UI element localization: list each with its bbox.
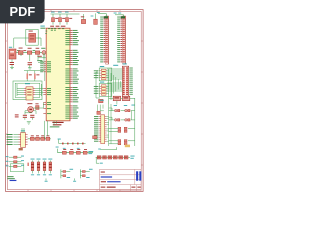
USB shield outline xyxy=(13,81,42,100)
polyfuse F3 xyxy=(122,96,129,100)
crystal Q1 xyxy=(28,107,34,113)
title block row2 link text xyxy=(101,176,112,177)
wire RN2 feed xyxy=(98,147,116,149)
pin names U1 top rows xyxy=(48,27,64,30)
wire crystal join xyxy=(25,111,36,114)
label +5V nets xyxy=(37,53,46,71)
capacitor C5 xyxy=(15,114,19,117)
label U1 designator xyxy=(50,26,65,27)
wire 5V drop xyxy=(38,53,44,60)
jumper SJ1 group xyxy=(6,156,24,168)
MCU U1 left pins xyxy=(43,62,46,114)
net labels column AD0-AD6 xyxy=(94,116,98,141)
wire MISO/SCK xyxy=(45,121,48,139)
label diode rows xyxy=(114,105,135,106)
ICSP pins xyxy=(13,135,27,145)
label chain nets xyxy=(17,49,35,52)
diode D5 pair xyxy=(109,109,120,112)
transistor cluster T3 xyxy=(109,127,127,132)
value ATMEGA label 3 xyxy=(50,125,60,128)
wire right bus xyxy=(109,98,135,146)
wire header JP5 top xyxy=(97,12,107,16)
PDF badge xyxy=(0,0,45,23)
polyfuse F2 xyxy=(113,96,120,100)
capacitor C10 above U1 xyxy=(51,12,58,25)
capacitor C15 bottom row xyxy=(37,159,41,176)
pin names U1 top rows 2 xyxy=(45,30,56,34)
ICSP net labels xyxy=(7,134,13,145)
capacitor C1 xyxy=(10,62,14,67)
net labels JP3 right xyxy=(129,68,132,95)
MCU U1 body xyxy=(46,28,70,121)
diode D8 pair xyxy=(121,119,135,122)
capacitor C6 xyxy=(23,115,27,120)
resistor R8 xyxy=(81,14,86,24)
label Q1 xyxy=(27,103,38,104)
ground GND3 xyxy=(27,122,31,124)
wire into ADC top xyxy=(98,105,104,114)
label JP3 xyxy=(113,63,127,65)
wire USB inner loop xyxy=(15,83,40,97)
jumper group outline xyxy=(10,164,23,172)
ground GND1 xyxy=(10,68,14,69)
frame inner border xyxy=(7,11,141,189)
diode D1 xyxy=(18,48,23,55)
voltage regulator IC2 body xyxy=(29,33,36,42)
label IC2 xyxy=(29,26,46,32)
wire regulator input xyxy=(14,38,41,48)
wire top rail xyxy=(51,13,80,15)
capacitor PC1 xyxy=(35,48,39,55)
pin names U1 right column xyxy=(65,30,69,119)
resistor R12 xyxy=(93,136,97,139)
pin header JP5 (digital) xyxy=(100,16,108,64)
resistor R11 xyxy=(99,99,103,102)
op-amp IC6 xyxy=(94,82,112,97)
resistor row RN2 xyxy=(96,156,135,159)
ICSP header xyxy=(21,130,26,147)
wire USB to MCU xyxy=(41,89,43,93)
wire ICSP down xyxy=(22,128,24,133)
wire XTAL2 xyxy=(25,111,36,115)
voltage regulator IC2 outline xyxy=(26,29,38,45)
value ATMEGA label 2 xyxy=(53,124,62,125)
wire USB bus right xyxy=(40,84,42,96)
ground GND2 xyxy=(28,68,32,69)
pin names U1 left column xyxy=(47,61,51,114)
frame tick marks xyxy=(6,10,144,192)
wire header JP1 top xyxy=(114,13,124,17)
transistor T1 cluster xyxy=(61,169,73,178)
title block row3 text xyxy=(101,181,121,182)
resistor brown mark xyxy=(19,148,23,150)
wire fuse feeds xyxy=(109,98,135,104)
capacitor C16 bottom row xyxy=(43,159,47,176)
MCU U1 right pins xyxy=(70,30,73,119)
label JP1 xyxy=(121,16,125,18)
fuse F1 xyxy=(27,48,31,55)
varistor Z1 xyxy=(27,71,32,81)
USB connector pins and wires xyxy=(17,89,41,95)
wire USB bus left xyxy=(16,84,18,96)
power jack X1 xyxy=(9,47,16,59)
USB connector X2 xyxy=(25,83,33,100)
wire jack ground xyxy=(12,53,30,62)
pin header JP1 (digital) xyxy=(117,16,125,64)
svg-text:PDF: PDF xyxy=(9,4,35,19)
wire VIN chain xyxy=(16,52,46,54)
connector JP3 pins xyxy=(123,67,128,95)
connector ADC pins xyxy=(99,117,109,142)
capacitor C17 bottom row xyxy=(48,159,52,176)
transistor T2 cluster xyxy=(80,169,92,178)
capacitor PC2 round xyxy=(41,48,46,55)
diode D4 xyxy=(91,13,98,24)
op-amp IC5 xyxy=(94,66,112,81)
varistor Z2 xyxy=(34,71,39,81)
title block table xyxy=(100,169,142,190)
resistor R7 mark xyxy=(27,163,29,166)
node stub A xyxy=(45,178,48,181)
wire JP3 bus vertical xyxy=(109,69,121,104)
resistor R13 xyxy=(97,111,100,114)
title block row1 text xyxy=(101,172,105,173)
wire XTAL1 xyxy=(34,103,44,108)
node stub B xyxy=(73,178,76,181)
title block row4 date/sheet text xyxy=(101,187,141,188)
capacitor C2 xyxy=(28,62,32,67)
wire opamp join xyxy=(96,72,100,98)
capacitor C12 above U1 xyxy=(65,12,72,25)
resistor network RN1 xyxy=(28,135,51,140)
net labels U1 left xyxy=(40,61,43,72)
wires to JP3 xyxy=(107,69,122,91)
transistor cluster T4 xyxy=(109,140,130,148)
capacitor C14 bottom row xyxy=(31,159,35,176)
connector JP3 body xyxy=(122,66,128,96)
label JP5 xyxy=(104,16,108,18)
capacitor C7 xyxy=(30,115,34,120)
wire RN2 drop xyxy=(96,157,103,163)
resonator box xyxy=(36,106,39,110)
diode D7 pair xyxy=(109,119,120,122)
wire diode feeds xyxy=(109,108,112,120)
diode D6 pair xyxy=(121,109,135,112)
value ATMEGA label xyxy=(52,122,63,123)
capacitor C11 above U1 xyxy=(58,12,65,25)
label copyright text xyxy=(7,176,14,179)
logo Arduino (blue bars) xyxy=(136,171,141,180)
wire 3V3 rail xyxy=(24,71,45,81)
connector ADC body xyxy=(100,100,105,144)
power header JP6 xyxy=(58,139,86,145)
frame outer border xyxy=(6,10,144,192)
label link text xyxy=(10,180,17,181)
MCU U1 right net labels xyxy=(73,30,79,119)
wire U1 bottom stub xyxy=(54,121,56,126)
resistor row R2-R5 xyxy=(56,147,94,155)
